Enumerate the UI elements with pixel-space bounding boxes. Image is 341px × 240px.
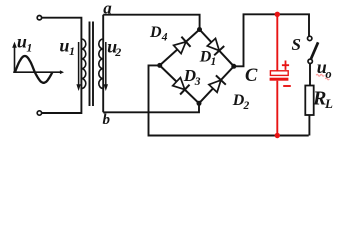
sine wave: [15, 56, 53, 83]
secondary arrow (u2 direction): [105, 42, 107, 85]
wire a to bridge top: [103, 15, 199, 30]
svg-text:b: b: [103, 112, 111, 128]
svg-text:3: 3: [194, 76, 201, 88]
diode D4: [174, 37, 191, 54]
terminal bottom-left: [37, 111, 41, 115]
switch blade: [311, 42, 318, 59]
svg-text:1: 1: [26, 41, 32, 55]
capacitor C red lead upper: [276, 14, 278, 71]
svg-text:1: 1: [69, 44, 75, 58]
svg-text:1: 1: [211, 56, 217, 68]
svg-text:S: S: [292, 35, 301, 54]
diode D1: [207, 38, 224, 55]
svg-text:L: L: [324, 96, 333, 111]
plus sign: [282, 61, 289, 70]
wire left vertex to bottom rail: [149, 65, 309, 135]
svg-text:2: 2: [243, 100, 250, 112]
terminal top-left: [37, 16, 41, 20]
transformer primary winding: [81, 39, 85, 89]
spellcheck squiggle under uo: [316, 74, 324, 76]
svg-text:C: C: [245, 66, 258, 86]
junction dot bottom vertex: [197, 101, 202, 106]
red junction dot bottom: [275, 133, 280, 138]
wire b to bridge bottom: [103, 103, 199, 112]
svg-text:D: D: [149, 24, 162, 41]
capacitor C plus plate (hollow): [270, 71, 288, 76]
transformer core: [90, 22, 94, 107]
bridge diamond edges: [160, 30, 234, 104]
svg-text:u: u: [59, 36, 69, 56]
secondary lead a-b: [102, 15, 104, 113]
resistor RL box: [305, 86, 313, 116]
red junction dot top: [275, 12, 280, 17]
diode D2: [209, 75, 226, 92]
transformer secondary winding: [99, 39, 103, 89]
capacitor C red lead lower: [276, 81, 278, 136]
sine time axis with right arrow: [13, 71, 60, 73]
source u1 sine graph vertical axis arrow: [14, 47, 16, 72]
wire switch to RL: [309, 64, 311, 86]
junction dot right vertex: [231, 64, 236, 69]
capacitor C minus plate (solid): [270, 78, 289, 81]
switch S bottom terminal: [308, 59, 312, 63]
svg-text:2: 2: [114, 45, 121, 59]
primary arrow (u1 direction): [78, 42, 80, 85]
diode D3: [173, 78, 190, 95]
svg-text:o: o: [325, 67, 331, 81]
junction dot left vertex: [157, 63, 162, 68]
wire left loop: [42, 18, 82, 113]
svg-text:4: 4: [161, 31, 168, 43]
wire right vertex to top and to switch: [234, 14, 309, 66]
switch S top terminal: [308, 36, 312, 40]
junction dot top vertex: [197, 27, 202, 32]
wire RL to bottom rail: [308, 115, 310, 136]
minus sign: [283, 85, 291, 87]
